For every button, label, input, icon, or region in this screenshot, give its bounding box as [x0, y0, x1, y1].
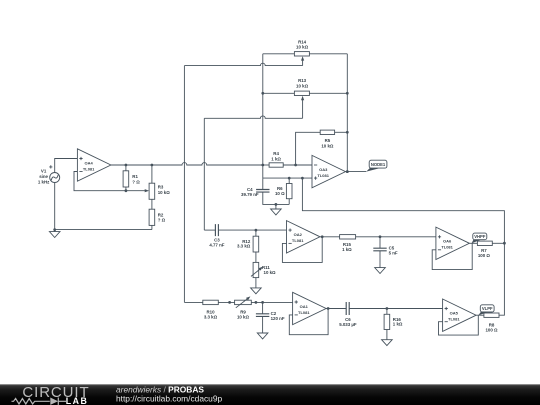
svg-text:TL081: TL081: [448, 317, 460, 322]
svg-text:TL081: TL081: [441, 245, 453, 250]
svg-text:10 kΩ: 10 kΩ: [158, 190, 171, 195]
svg-text:OA6: OA6: [443, 239, 452, 244]
svg-text:10 Ω: 10 Ω: [275, 191, 285, 196]
svg-text:TL081: TL081: [317, 173, 329, 178]
svg-text:1 kHz: 1 kHz: [38, 180, 50, 185]
svg-text:1 kΩ: 1 kΩ: [271, 156, 281, 161]
svg-text:R13: R13: [298, 78, 307, 83]
svg-text:R1: R1: [132, 174, 138, 179]
svg-text:OA1: OA1: [300, 304, 309, 309]
svg-text:100 Ω: 100 Ω: [478, 253, 491, 258]
svg-text:VLPF: VLPF: [482, 306, 493, 311]
svg-text:NODE1: NODE1: [371, 162, 386, 167]
svg-text:OA5: OA5: [450, 311, 459, 316]
svg-text:4.77 nF: 4.77 nF: [209, 243, 224, 248]
svg-text:1 kΩ: 1 kΩ: [342, 247, 352, 252]
svg-text:http://circuitlab.com/cdacu9p: http://circuitlab.com/cdacu9p: [116, 393, 222, 403]
svg-text:1 kΩ: 1 kΩ: [393, 322, 403, 327]
svg-text:10 kΩ: 10 kΩ: [321, 143, 334, 148]
svg-text:LAB: LAB: [66, 396, 89, 405]
svg-text:? Ω: ? Ω: [158, 218, 166, 223]
svg-text:VHPF: VHPF: [474, 234, 486, 239]
svg-text:R4: R4: [273, 151, 279, 156]
svg-text:120 nF: 120 nF: [271, 316, 285, 321]
svg-text:V1: V1: [41, 169, 47, 174]
svg-text:5 nF: 5 nF: [389, 250, 398, 255]
svg-text:TL081: TL081: [292, 238, 304, 243]
svg-text:? Ω: ? Ω: [132, 180, 140, 185]
svg-text:OA4: OA4: [84, 160, 93, 165]
svg-text:5.033 µF: 5.033 µF: [339, 322, 357, 327]
svg-text:10 kΩ: 10 kΩ: [296, 84, 309, 89]
svg-text:OA3: OA3: [319, 167, 328, 172]
svg-text:3.3 kΩ: 3.3 kΩ: [204, 315, 218, 320]
svg-text:TL081: TL081: [298, 310, 310, 315]
svg-text:sine: sine: [39, 174, 48, 179]
svg-text:R5: R5: [325, 138, 331, 143]
svg-text:100 Ω: 100 Ω: [485, 328, 498, 333]
svg-text:10 kΩ: 10 kΩ: [237, 315, 250, 320]
svg-text:39.79 nF: 39.79 nF: [241, 192, 259, 197]
svg-text:R2: R2: [158, 212, 164, 217]
svg-text:10 kΩ: 10 kΩ: [264, 270, 277, 275]
svg-text:TL081: TL081: [83, 166, 95, 171]
svg-text:10 kΩ: 10 kΩ: [296, 44, 309, 49]
svg-text:OA2: OA2: [294, 232, 303, 237]
svg-text:3.3 kΩ: 3.3 kΩ: [237, 244, 251, 249]
svg-text:R3: R3: [158, 185, 164, 190]
